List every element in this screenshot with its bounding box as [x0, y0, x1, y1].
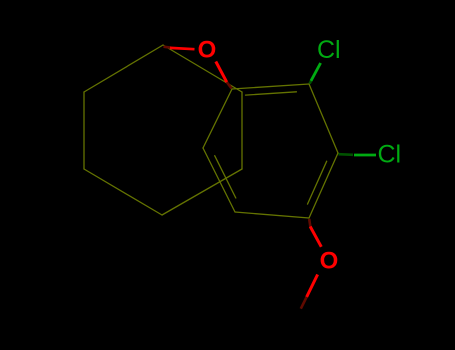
double bond inner line C3-C4: [308, 161, 327, 204]
benzene ring C1-C6: [203, 84, 338, 218]
wire bond C3-C4: [309, 153, 338, 218]
bond C2-Cl1 chlorine half (green): [311, 63, 321, 81]
wire bond C10-C11: [162, 169, 242, 215]
svg-text:O: O: [320, 248, 339, 275]
wire bond C8-C9: [83, 92, 85, 169]
svg-text:O: O: [198, 37, 217, 64]
wire bond C5-C6: [203, 148, 235, 212]
bond C3-Cl2 chlorine half (green): [354, 154, 376, 157]
svg-text:Cl: Cl: [317, 36, 341, 64]
cyclohexyl ring C7-C12: [84, 45, 242, 215]
wire bond C4-C5: [235, 212, 309, 218]
wire bond C7-C8: [84, 45, 163, 92]
wire bond C2-C3: [309, 84, 338, 153]
bond O1-C1 (red): [216, 62, 227, 83]
double bond inner line C1-C2: [246, 92, 297, 95]
bond C3-Cl2 carbon half (dark green): [339, 153, 354, 156]
bond C2-Cl1 carbon stub (dark green): [310, 80, 312, 84]
wire bond C9-C10: [84, 169, 162, 215]
double bond inner line C5-C6: [215, 156, 236, 198]
bond C4-O2 oxygen half (red): [310, 227, 321, 247]
bond O2-C13 oxygen half (red): [307, 275, 318, 298]
bond C7-O1 oxygen half (red): [170, 48, 195, 49]
bond C4-O2 carbon stub (dark red): [309, 219, 310, 227]
wire bond C6-C1: [203, 89, 232, 148]
wire bond C1-C2 (top edge): [232, 84, 309, 89]
wire bond C11-C12: [241, 92, 243, 169]
bond C7-O1 carbon stub (dark red): [164, 47, 172, 48]
svg-text:Cl: Cl: [378, 141, 402, 169]
bond O2-C13 carbon half (dark red): [301, 297, 307, 309]
bond O1-C1 carbon stub (dark red): [227, 82, 232, 88]
wire bond C12-C7: [163, 45, 242, 92]
